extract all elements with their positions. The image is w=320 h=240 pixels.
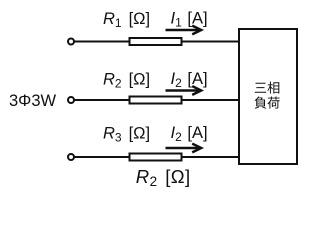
- load text kanji SAN (three): [255, 83, 266, 93]
- wire line 3 (bottom phase): [75, 156, 239, 158]
- wire line 2 (middle phase): [75, 99, 239, 101]
- current arrow I2: [166, 86, 202, 95]
- svg-text:R1 [Ω]: R1 [Ω]: [103, 10, 150, 30]
- resistor R2: [130, 97, 182, 104]
- current arrow I3 (labelled I2): [166, 144, 202, 153]
- terminal circle line 2: [68, 97, 74, 103]
- svg-text:R3 [Ω]: R3 [Ω]: [103, 124, 150, 144]
- resistor R3: [130, 154, 182, 161]
- wire line 1 (top phase): [75, 41, 239, 43]
- svg-text:I1 [A]: I1 [A]: [171, 10, 208, 30]
- resistor R1: [130, 38, 182, 45]
- load text kanji KA (load-2): [267, 97, 279, 109]
- svg-text:I2 [A]: I2 [A]: [171, 124, 208, 144]
- svg-text:R2 [Ω]: R2 [Ω]: [136, 166, 191, 189]
- svg-text:I2 [A]: I2 [A]: [171, 70, 208, 90]
- svg-text:R2 [Ω]: R2 [Ω]: [103, 70, 150, 90]
- current arrow I1: [166, 26, 202, 35]
- load text kanji FU (load-1): [255, 97, 267, 109]
- load box (three-phase load): [239, 29, 297, 164]
- load text kanji SOU (phase): [267, 82, 279, 94]
- svg-text:3Φ3W: 3Φ3W: [9, 92, 57, 110]
- terminal circle line 1: [68, 39, 74, 45]
- terminal circle line 3: [68, 154, 74, 160]
